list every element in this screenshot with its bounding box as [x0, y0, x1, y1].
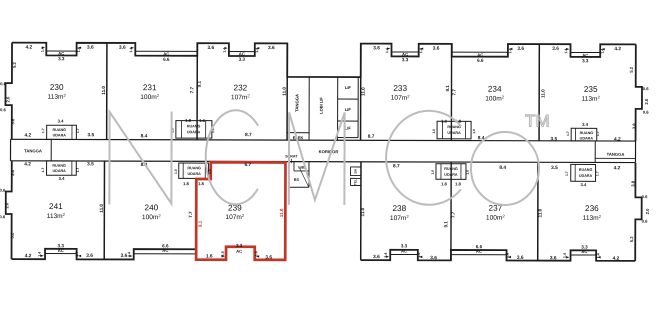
watermark letter C	[206, 110, 259, 204]
svg-text:1.7: 1.7	[595, 171, 599, 176]
svg-text:11.0: 11.0	[279, 208, 284, 217]
svg-text:11.0: 11.0	[282, 87, 287, 96]
svg-text:UDARA: UDARA	[187, 172, 201, 176]
svg-text:1.0: 1.0	[466, 170, 470, 175]
lift shaft LIF 2	[338, 120, 358, 122]
svg-text:UDARA: UDARA	[447, 131, 461, 135]
wall between units 241 and 240	[103, 161, 105, 259]
svg-text:RUANG: RUANG	[187, 166, 201, 170]
SA box on unit 238 wall	[351, 167, 361, 176]
svg-text:9.1: 9.1	[443, 221, 448, 228]
WR room	[293, 162, 295, 171]
ELEK room	[287, 132, 309, 134]
svg-text:3.6: 3.6	[517, 255, 524, 261]
LOBI LIF lobby	[337, 77, 339, 140]
svg-text:1.6: 1.6	[221, 251, 225, 256]
svg-text:3.5: 3.5	[87, 161, 94, 167]
svg-text:11.0: 11.0	[361, 87, 366, 96]
left outer wall unit 241 with protrusion	[6, 161, 12, 259]
svg-text:3.6: 3.6	[119, 45, 126, 51]
svg-text:7.7: 7.7	[188, 211, 193, 218]
svg-text:0.6: 0.6	[0, 107, 7, 112]
svg-text:LIF: LIF	[345, 126, 352, 131]
wall between units 238 and 237 (double line)	[450, 162, 452, 260]
svg-text:UDARA: UDARA	[187, 130, 201, 134]
svg-text:3.4: 3.4	[58, 119, 65, 124]
svg-text:7.7: 7.7	[451, 211, 456, 218]
watermark letter o	[471, 132, 539, 205]
svg-text:KORIDOR: KORIDOR	[319, 149, 339, 154]
svg-text:3.6: 3.6	[207, 45, 214, 51]
svg-text:3.8: 3.8	[631, 123, 636, 130]
svg-text:3.6: 3.6	[430, 255, 437, 261]
svg-text:0.6: 0.6	[0, 81, 7, 86]
svg-text:AC: AC	[402, 52, 408, 57]
svg-text:9.1: 9.1	[197, 80, 202, 87]
svg-text:8.4: 8.4	[499, 165, 506, 171]
svg-text:9.1: 9.1	[445, 85, 450, 92]
right outer wall unit 235 with protrusion	[636, 44, 643, 141]
svg-text:BS: BS	[294, 178, 300, 182]
svg-text:3.5: 3.5	[551, 165, 558, 171]
svg-text:236: 236	[585, 204, 599, 213]
svg-text:7.7: 7.7	[451, 89, 456, 96]
svg-text:1.7: 1.7	[566, 131, 570, 136]
svg-text:3.4: 3.4	[582, 122, 589, 127]
svg-text:1.0: 1.0	[472, 129, 476, 134]
svg-text:AC: AC	[582, 53, 588, 58]
svg-text:1.6: 1.6	[206, 253, 213, 259]
svg-text:1.7: 1.7	[565, 171, 569, 176]
svg-text:3.5: 3.5	[88, 132, 95, 138]
lift shaft LIF 3	[338, 137, 358, 139]
air well RUANG UDARA of unit 236	[571, 164, 596, 181]
svg-text:5.2: 5.2	[629, 236, 634, 243]
svg-text:11.0: 11.0	[540, 89, 545, 98]
svg-text:8.7: 8.7	[245, 132, 252, 138]
svg-text:1.6: 1.6	[199, 118, 206, 123]
svg-text:UDARA: UDARA	[444, 173, 458, 177]
svg-text:TANGGA: TANGGA	[607, 152, 625, 157]
svg-text:232: 232	[234, 83, 248, 92]
svg-text:11.0: 11.0	[99, 204, 104, 213]
corridor lower line	[10, 161, 635, 163]
svg-text:RUANG: RUANG	[187, 124, 201, 128]
wall between unit 238 and core	[360, 162, 362, 260]
svg-text:3.4: 3.4	[59, 176, 66, 181]
air well RUANG UDARA between 240 and 239	[179, 163, 209, 178]
svg-text:LIF: LIF	[345, 85, 352, 90]
svg-text:11.0: 11.0	[101, 86, 106, 95]
svg-text:RUANG: RUANG	[579, 168, 593, 172]
svg-text:3.3: 3.3	[236, 243, 243, 248]
svg-text:RUANG: RUANG	[53, 128, 67, 132]
right outer wall unit 236 with protrusion	[635, 163, 642, 261]
svg-text:3.6: 3.6	[10, 118, 15, 125]
left outer wall unit 230 with protrusion	[5, 43, 12, 140]
svg-text:0.6: 0.6	[643, 110, 650, 115]
air well RUANG UDARA between 233 and 234	[437, 121, 471, 139]
leader line near WR	[300, 169, 309, 187]
svg-text:9.1: 9.1	[198, 220, 203, 227]
svg-text:UDARA: UDARA	[580, 137, 594, 141]
air well RUANG UDARA of unit 235	[571, 128, 597, 141]
svg-text:AC: AC	[58, 248, 64, 253]
air well RUANG UDARA between 238 and 237	[436, 164, 466, 180]
svg-text:1.8: 1.8	[198, 181, 205, 186]
svg-text:RUANG: RUANG	[580, 131, 594, 135]
wall between units 233 and 234 (double line)	[450, 44, 452, 141]
highlighted unit 239 red outline	[196, 162, 285, 260]
svg-text:TANGGA: TANGGA	[294, 94, 299, 112]
svg-text:1.8: 1.8	[185, 118, 192, 123]
svg-text:1.0: 1.0	[174, 169, 178, 174]
air well RUANG UDARA between 231 and 232	[176, 121, 212, 139]
svg-text:5.2: 5.2	[12, 62, 17, 69]
svg-text:WR: WR	[298, 166, 305, 170]
wall between unit 232 and stair core	[286, 43, 288, 140]
svg-text:3.6: 3.6	[550, 255, 557, 261]
air well RUANG UDARA of unit 241	[47, 161, 77, 175]
svg-text:4.2: 4.2	[24, 161, 31, 167]
svg-text:1.6: 1.6	[254, 251, 258, 256]
wall between lift core and unit 233	[360, 44, 362, 141]
AC ledge upper lines, top row	[46, 50, 76, 52]
svg-text:8.7: 8.7	[393, 163, 400, 169]
svg-text:6.6: 6.6	[477, 58, 484, 63]
svg-text:8.7: 8.7	[368, 134, 375, 140]
svg-text:0.6: 0.6	[0, 188, 6, 193]
svg-text:SA: SA	[353, 168, 357, 173]
right stair TANGGA box in corridor	[594, 141, 596, 162]
svg-text:231: 231	[143, 83, 157, 92]
svg-text:3.3: 3.3	[402, 57, 409, 62]
svg-text:4.2: 4.2	[25, 132, 32, 138]
svg-text:3.3: 3.3	[239, 57, 246, 62]
svg-text:LIF: LIF	[345, 107, 352, 112]
svg-text:1.7: 1.7	[596, 131, 600, 136]
svg-text:1.8: 1.8	[455, 181, 462, 186]
svg-text:241: 241	[49, 202, 63, 211]
svg-text:UDARA: UDARA	[53, 133, 67, 137]
svg-text:AC: AC	[58, 51, 64, 56]
svg-text:3.8: 3.8	[10, 170, 15, 177]
svg-text:LOBI LIF: LOBI LIF	[319, 97, 324, 114]
svg-text:233: 233	[393, 84, 407, 93]
svg-text:11.0: 11.0	[538, 208, 543, 217]
svg-text:3.3: 3.3	[582, 58, 589, 63]
svg-text:5.2: 5.2	[629, 66, 634, 73]
svg-text:3.6: 3.6	[373, 45, 380, 51]
watermark letter M	[289, 112, 345, 205]
svg-text:3.6: 3.6	[373, 254, 380, 260]
svg-text:RUANG: RUANG	[444, 167, 458, 171]
svg-text:1.6: 1.6	[441, 119, 448, 124]
svg-text:4.2: 4.2	[613, 256, 620, 262]
svg-text:1.7: 1.7	[76, 168, 80, 173]
svg-text:6.6: 6.6	[163, 57, 170, 62]
svg-text:UDARA: UDARA	[579, 174, 593, 178]
svg-text:4.2: 4.2	[614, 165, 621, 171]
svg-text:235: 235	[584, 85, 598, 94]
svg-text:3.6: 3.6	[433, 46, 440, 52]
svg-text:0.6: 0.6	[643, 86, 650, 91]
svg-text:1.0: 1.0	[431, 170, 435, 175]
mail/WR/BS room block walls	[308, 162, 310, 187]
dimension arrow ticks top notches	[42, 46, 45, 48]
svg-text:1.8: 1.8	[183, 181, 190, 186]
svg-text:3.5: 3.5	[551, 136, 558, 142]
svg-text:AC: AC	[163, 51, 169, 56]
svg-text:0.6: 0.6	[642, 194, 649, 199]
wall between units 237 and 236	[537, 163, 539, 261]
outer top wall with AC notches (units 230-235)	[12, 43, 636, 78]
left stair TANGGA box in corridor	[9, 139, 11, 160]
outer bottom wall with AC notches (units 241,240,238,237,236)	[12, 249, 197, 260]
svg-text:1.7: 1.7	[41, 168, 45, 173]
svg-text:ELEK: ELEK	[293, 135, 304, 140]
watermark letter N	[109, 111, 171, 204]
svg-text:3.6: 3.6	[87, 45, 94, 51]
svg-text:2.0: 2.0	[4, 202, 9, 209]
svg-text:AC: AC	[401, 249, 407, 254]
svg-text:5.2: 5.2	[10, 232, 15, 239]
svg-text:TANGGA: TANGGA	[24, 148, 42, 153]
svg-text:1.0: 1.0	[208, 169, 212, 174]
svg-text:3.6: 3.6	[268, 45, 275, 51]
watermark letter C second	[386, 111, 461, 205]
svg-text:4.2: 4.2	[614, 136, 621, 142]
svg-text:RUANG: RUANG	[447, 125, 461, 129]
svg-text:1.7: 1.7	[41, 128, 45, 133]
svg-text:1.8: 1.8	[441, 181, 448, 186]
svg-text:3.6: 3.6	[86, 253, 93, 259]
svg-text:3.6: 3.6	[552, 46, 559, 52]
svg-text:UDARA: UDARA	[52, 169, 66, 173]
svg-text:AC: AC	[476, 249, 482, 254]
lift shaft LIF 1	[357, 77, 359, 137]
svg-text:234: 234	[488, 85, 502, 94]
svg-text:3.6: 3.6	[517, 46, 524, 52]
svg-text:TM: TM	[525, 112, 550, 131]
svg-text:2.0: 2.0	[645, 208, 650, 215]
svg-text:AC: AC	[162, 248, 168, 253]
svg-text:238: 238	[393, 204, 407, 213]
svg-text:4.2: 4.2	[25, 44, 32, 50]
svg-text:AC: AC	[581, 249, 587, 254]
corridor upper line	[11, 139, 636, 141]
svg-text:8.4: 8.4	[141, 133, 148, 139]
svg-text:0.6: 0.6	[642, 219, 649, 224]
svg-text:3.3: 3.3	[58, 56, 65, 61]
TANGGA stair shaft top core	[308, 77, 310, 140]
svg-text:1.0: 1.0	[432, 129, 436, 134]
svg-text:0.6: 0.6	[0, 214, 6, 219]
svg-text:SURAT: SURAT	[285, 154, 298, 158]
wall between units 230 and 231	[106, 43, 108, 140]
svg-text:AC: AC	[477, 52, 483, 57]
svg-text:7.7: 7.7	[189, 86, 194, 93]
air well RUANG UDARA of unit 230	[47, 125, 77, 139]
wall between units 231 and 232	[196, 43, 198, 140]
svg-text:4.2: 4.2	[614, 46, 621, 52]
svg-text:2.0: 2.0	[644, 98, 649, 105]
svg-text:6.7: 6.7	[245, 162, 252, 168]
wall between units 234 and 235	[538, 44, 540, 141]
svg-text:3.8: 3.8	[630, 180, 635, 187]
svg-text:240: 240	[145, 203, 159, 212]
svg-text:AC: AC	[236, 249, 242, 254]
svg-text:AC: AC	[239, 51, 245, 56]
svg-text:4.2: 4.2	[25, 253, 32, 259]
TEL box on unit 238 wall	[351, 178, 361, 185]
dimension arrow ticks bottom notches	[41, 255, 44, 257]
svg-text:RUANG: RUANG	[52, 164, 66, 168]
AC ledge lower lines, bottom row	[45, 253, 77, 255]
svg-text:2.0: 2.0	[5, 96, 10, 103]
svg-text:3.4: 3.4	[581, 182, 588, 187]
svg-text:TEL: TEL	[353, 179, 357, 185]
svg-text:230: 230	[50, 83, 64, 92]
svg-text:3.6: 3.6	[265, 255, 272, 261]
svg-text:11.0: 11.0	[360, 207, 365, 216]
svg-text:1.7: 1.7	[76, 128, 80, 133]
